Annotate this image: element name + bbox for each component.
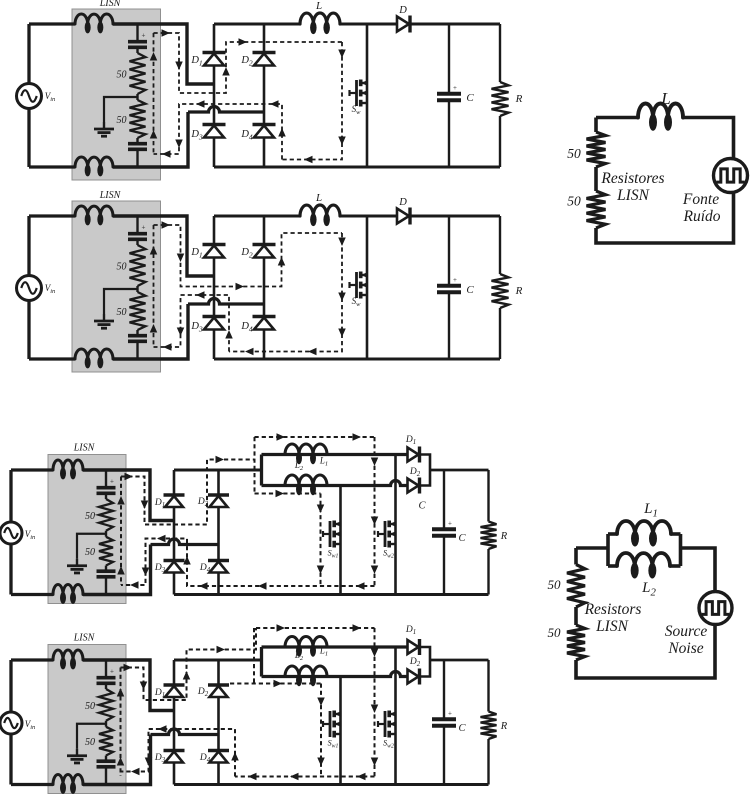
output capacitor C 4	[432, 717, 456, 721]
output diode D1 4	[408, 640, 419, 654]
dashed vertical distributor c4	[253, 628, 255, 684]
svg-text:Sw2: Sw2	[383, 549, 394, 560]
wire top rail to LISN 1	[29, 22, 75, 25]
LISN inductor top 3	[53, 460, 83, 470]
diode D4 3	[208, 559, 229, 562]
svg-text:C: C	[466, 284, 474, 296]
inductor L2 3	[285, 475, 327, 486]
svg-text:L: L	[315, 0, 322, 12]
dashed path under L2 to Sw1 c4	[230, 683, 321, 685]
wire source left vertical 3	[9, 470, 12, 595]
wire bottom rail 2	[214, 358, 500, 361]
wire LISN bottom up to mid 1	[113, 112, 188, 167]
diode D2 4	[208, 683, 229, 686]
eq1 resistor 50 bottom	[587, 191, 606, 228]
svg-text:50: 50	[548, 577, 562, 592]
LISN capacitor bottom 2	[128, 334, 147, 338]
wire output cap leg 4	[443, 660, 445, 719]
eq2 resistor 50 top	[567, 565, 585, 608]
svg-text:C: C	[418, 501, 426, 512]
wire bridge mid with hop 4	[151, 729, 219, 735]
ground 1	[103, 122, 105, 129]
svg-text:Sw1: Sw1	[328, 549, 339, 560]
AC source V4	[0, 712, 22, 734]
diode D1 4	[164, 683, 185, 686]
svg-text:D3: D3	[154, 563, 166, 574]
LISN capacitor bottom 1	[128, 142, 147, 146]
wire output top 4	[430, 659, 489, 662]
svg-text:50: 50	[567, 194, 581, 209]
eq2 inductor L1	[617, 521, 671, 534]
boost inductor L 2	[300, 205, 340, 216]
svg-text:D: D	[398, 197, 407, 208]
svg-text:50: 50	[85, 511, 95, 522]
wire D to output 1	[410, 23, 500, 26]
ground 4	[76, 749, 78, 756]
svg-text:D1: D1	[190, 55, 202, 67]
svg-text:Noise: Noise	[667, 640, 703, 657]
dashed noise return path c2	[154, 295, 230, 352]
dashed noise path to switch c1	[154, 33, 343, 93]
wire switch leg 2	[366, 216, 369, 359]
svg-text:C: C	[458, 723, 466, 734]
svg-text:Resistors: Resistors	[584, 601, 642, 618]
diode D2 3	[208, 493, 229, 496]
inductor L1 4	[285, 637, 327, 648]
LISN inductor bottom 1	[75, 157, 113, 167]
dashed path under L2 to Sw1 c3	[255, 493, 321, 495]
svg-text:L2: L2	[294, 650, 304, 662]
boost diode D 2	[397, 209, 409, 224]
dashed noise path LISN vertical c2	[153, 225, 155, 347]
LISN block 4	[48, 645, 126, 794]
wire LISN top to bridge step 1	[113, 24, 214, 84]
MOSFET Sw2 4	[384, 711, 387, 737]
svg-text:D4: D4	[240, 129, 253, 141]
svg-text:D2: D2	[409, 467, 421, 478]
svg-text:D4: D4	[199, 563, 211, 574]
eq2 wire mid left	[574, 607, 578, 625]
LISN inductor top 4	[53, 650, 83, 660]
output diode D2 4	[408, 670, 419, 684]
wire D to output 2	[410, 215, 500, 218]
wire parallel block left bar 4	[260, 647, 263, 677]
diode D3 2	[203, 315, 226, 318]
load resistor R 4	[481, 712, 497, 740]
svg-text:50: 50	[548, 625, 562, 640]
dashed noise path to switch c2	[154, 225, 343, 287]
wire source left vertical 2	[27, 216, 30, 359]
wire LISN bottom up to mid 4	[83, 735, 151, 785]
svg-text:+: +	[142, 32, 146, 40]
MOSFET Sw 2	[355, 272, 358, 298]
LISN block 3	[48, 455, 126, 604]
MOSFET Sw 1	[355, 80, 358, 106]
svg-text:L: L	[660, 89, 670, 108]
dashed Sw2 leg c3	[374, 437, 376, 586]
wire Sw2 leg 3	[394, 455, 397, 595]
LISN resistor 50 bottom 3	[99, 537, 113, 566]
wire source left vertical 4	[9, 660, 12, 785]
LISN ground wire 3	[77, 534, 106, 559]
LISN resistor 50 top 2	[130, 245, 146, 286]
svg-text:L: L	[315, 192, 322, 204]
output capacitor C 2	[437, 284, 461, 288]
wire bridge mid with hop 2	[188, 299, 264, 305]
inductor L2 4	[285, 666, 327, 677]
wire LISN top to bridge step 3	[83, 470, 174, 521]
diode D4 4	[208, 749, 229, 752]
AC source V2	[17, 276, 42, 301]
dashed Sw1 leg c3	[320, 494, 322, 587]
svg-text:LISN: LISN	[73, 443, 96, 454]
svg-text:D3: D3	[190, 129, 203, 141]
dashed vertical distributor c3	[254, 437, 256, 494]
eq2 wire top left	[576, 546, 608, 550]
svg-text:Vin: Vin	[25, 529, 36, 541]
svg-text:Resistores: Resistores	[600, 170, 664, 187]
wire bridge left vertical 2	[213, 216, 216, 359]
svg-text:L2: L2	[641, 580, 656, 598]
wire bridge right vertical 3	[217, 470, 220, 595]
LISN column wire 3	[105, 470, 107, 488]
svg-text:Vin: Vin	[25, 719, 36, 731]
wire parallel block left bar 3	[260, 455, 263, 486]
eq1 wire top right	[683, 118, 734, 159]
eq2 parallel inductor block	[606, 534, 610, 566]
wire top branch 3	[262, 453, 408, 456]
svg-text:D2: D2	[240, 55, 253, 67]
wire top rail to LISN 4	[11, 658, 53, 661]
wire Sw1 leg 3	[339, 486, 342, 595]
svg-text:D2: D2	[197, 687, 209, 698]
svg-text:LISN: LISN	[73, 633, 96, 644]
LISN capacitor top 2	[128, 232, 147, 236]
svg-text:D2: D2	[409, 657, 421, 668]
wire LISN top to bridge step 4	[83, 660, 174, 711]
svg-text:C: C	[466, 92, 474, 104]
eq2 inductor L2	[617, 553, 670, 566]
LISN column wire 4	[105, 660, 107, 678]
wire top rail to LISN 3	[11, 468, 53, 471]
diode D3 1	[203, 123, 226, 126]
wire top rail to parallel block 3	[174, 469, 262, 472]
load resistor R 1	[492, 82, 509, 116]
svg-text:LISN: LISN	[595, 618, 630, 635]
svg-text:D4: D4	[240, 321, 253, 333]
output capacitor C 3	[432, 527, 456, 531]
inductor L1 3	[285, 444, 327, 455]
diode D3 4	[164, 749, 185, 752]
LISN capacitor top 1	[128, 40, 147, 44]
wire top rail 2	[214, 215, 300, 218]
LISN resistor 50 top 1	[130, 53, 146, 94]
LISN ground wire 1	[104, 97, 138, 122]
svg-text:50: 50	[117, 115, 127, 126]
eq1 wire top left vertical	[594, 118, 598, 133]
wire top branch 4	[262, 645, 408, 648]
dashed bottom return c4	[235, 776, 375, 778]
svg-text:50: 50	[85, 547, 95, 558]
svg-text:D1: D1	[190, 247, 202, 259]
dashed noise path bridge c4	[121, 628, 257, 700]
load resistor R 3	[481, 522, 497, 550]
diode D1 1	[203, 51, 226, 54]
wire load leg 3	[487, 470, 489, 522]
eq1 noise source (Fonte Ruido)	[714, 159, 748, 193]
LISN resistor 50 bottom 2	[130, 292, 146, 330]
wire bottom branch with hop 3	[262, 481, 408, 486]
LISN block 1	[72, 9, 161, 180]
wire Sw1 leg 4	[339, 677, 342, 785]
load resistor R 2	[492, 274, 509, 308]
dashed top path to Sw2 c4	[256, 627, 375, 629]
LISN capacitor bottom 4	[97, 759, 116, 763]
wire output top 3	[430, 469, 489, 472]
wire bottom rail to LISN 3	[11, 593, 53, 596]
svg-text:50: 50	[85, 737, 95, 748]
LISN resistor 50 bottom 4	[99, 727, 113, 756]
svg-text:R: R	[500, 721, 508, 732]
svg-text:D: D	[398, 5, 407, 16]
eq2 wire bottom	[576, 625, 715, 679]
boost inductor L 1	[300, 13, 340, 24]
svg-text:+: +	[453, 276, 457, 284]
LISN resistor 50 bottom 1	[130, 100, 146, 138]
output diode D2 3	[408, 479, 419, 493]
dashed Sw2 leg c4	[374, 628, 376, 777]
wire bottom rail 3	[174, 593, 489, 596]
diode D2 2	[253, 243, 276, 246]
AC source V1	[17, 84, 42, 109]
svg-text:D1: D1	[405, 435, 416, 446]
LISN column wire 1	[136, 24, 138, 42]
wire bottom rail to LISN 4	[11, 783, 53, 786]
svg-text:Source: Source	[665, 623, 708, 640]
dashed noise path bridge c3	[121, 460, 255, 525]
wire bottom rail 1	[214, 166, 500, 169]
LISN capacitor top 3	[97, 486, 116, 490]
dashed return path c3	[121, 539, 375, 587]
wire top rail to parallel block 4	[174, 659, 262, 662]
svg-text:50: 50	[117, 262, 127, 273]
ground 3	[76, 559, 78, 566]
wire bottom rail 4	[174, 783, 489, 786]
LISN inductor bottom 4	[53, 775, 83, 785]
output diode D1 3	[408, 448, 419, 462]
wire source left vertical 1	[27, 24, 30, 167]
dashed noise path LISN vertical c3	[120, 477, 122, 586]
dashed noise path LISN vertical c4	[120, 668, 122, 777]
wire top rail 1	[214, 23, 300, 26]
wire bridge mid with hop 1	[188, 107, 264, 113]
dashed noise path switch leg c2	[229, 233, 342, 352]
LISN inductor top 2	[75, 206, 113, 216]
svg-text:R: R	[515, 285, 523, 297]
eq1 inductor L	[638, 104, 683, 118]
svg-text:R: R	[500, 531, 508, 542]
wire bridge right vertical 1	[263, 24, 266, 167]
wire diode join bar 3	[420, 455, 431, 486]
eq2 wire top left vertical	[574, 548, 578, 565]
svg-text:L1: L1	[643, 501, 658, 519]
dashed return path c4	[121, 729, 236, 777]
svg-text:Fonte: Fonte	[682, 191, 719, 208]
svg-text:+: +	[448, 709, 452, 717]
AC source V3	[0, 522, 22, 544]
svg-text:D2: D2	[240, 247, 253, 259]
wire load leg 2	[499, 216, 501, 274]
LISN resistor 50 top 4	[99, 689, 113, 721]
wire load leg 4	[487, 660, 489, 712]
wire bridge mid with hop 3	[151, 539, 219, 545]
boost diode D 1	[397, 17, 409, 32]
svg-text:+: +	[453, 84, 457, 92]
svg-text:+: +	[448, 519, 452, 527]
LISN capacitor bottom 3	[97, 569, 116, 573]
wire output cap leg 2	[448, 216, 450, 286]
eq1 wire mid left	[594, 167, 598, 191]
wire output cap leg 3	[443, 470, 445, 529]
svg-text:D3: D3	[154, 753, 166, 764]
LISN column wire 2	[136, 216, 138, 234]
wire LISN bottom up to mid 2	[113, 304, 188, 359]
diode D1 2	[203, 243, 226, 246]
svg-text:D1: D1	[154, 688, 165, 699]
diode D4 2	[253, 315, 276, 318]
svg-text:Sw1: Sw1	[328, 739, 339, 750]
wire bridge left vertical 1	[213, 24, 216, 167]
wire LISN bottom up to mid 3	[83, 545, 151, 595]
LISN inductor bottom 3	[53, 585, 83, 595]
LISN ground wire 4	[77, 724, 106, 749]
svg-text:R: R	[515, 93, 523, 105]
wire bridge right vertical 2	[263, 216, 266, 359]
diode D2 1	[253, 51, 276, 54]
LISN capacitor top 4	[97, 676, 116, 680]
eq1 wire top left	[596, 116, 638, 120]
LISN resistor 50 top 3	[99, 499, 113, 531]
wire L to D 2	[340, 215, 397, 218]
dashed noise path LISN vertical c1	[153, 33, 155, 155]
eq2 noise source (Source Noise)	[699, 592, 732, 625]
LISN ground wire 2	[104, 289, 138, 314]
svg-text:+: +	[110, 668, 114, 676]
eq1 wire bottom	[596, 193, 734, 244]
eq2 resistor 50 bottom	[567, 625, 585, 660]
ground 2	[103, 314, 105, 321]
svg-text:LISN: LISN	[99, 190, 122, 201]
svg-text:D3: D3	[190, 321, 203, 333]
svg-text:L1: L1	[319, 456, 328, 468]
MOSFET Sw2 3	[384, 521, 387, 547]
svg-text:LISN: LISN	[99, 0, 122, 9]
wire diode join bar 4	[420, 647, 431, 677]
dashed Sw1 leg c4	[320, 684, 322, 777]
diode D3 3	[164, 559, 185, 562]
wire bottom rail to LISN 1	[29, 165, 75, 168]
MOSFET Sw1 3	[329, 521, 332, 547]
svg-text:50: 50	[117, 307, 127, 318]
wire bottom branch with hop 4	[262, 672, 408, 677]
LISN block 2	[72, 201, 161, 372]
svg-text:L2: L2	[294, 460, 304, 472]
wire bottom rail to LISN 2	[29, 357, 75, 360]
wire bridge right vertical 4	[217, 660, 220, 785]
svg-text:+: +	[110, 478, 114, 486]
svg-text:Ruído: Ruído	[682, 208, 720, 225]
svg-text:+: +	[142, 224, 146, 232]
svg-text:Sw2: Sw2	[383, 739, 394, 750]
dashed top path to Sw2 c3	[255, 436, 375, 438]
diode D4 1	[253, 123, 276, 126]
wire L to D 1	[340, 23, 397, 26]
LISN inductor bottom 2	[75, 349, 113, 359]
svg-text:C: C	[458, 533, 466, 544]
svg-text:50: 50	[85, 701, 95, 712]
wire bridge left vertical 3	[173, 470, 176, 595]
svg-text:Vin: Vin	[45, 91, 56, 103]
svg-text:D1: D1	[154, 498, 165, 509]
svg-text:D1: D1	[405, 625, 416, 636]
LISN inductor top 1	[75, 14, 113, 24]
wire switch leg 1	[366, 24, 369, 167]
wire LISN top to bridge step 2	[113, 216, 214, 276]
wire load leg 1	[499, 24, 501, 82]
wire top rail to LISN 2	[29, 214, 75, 217]
svg-text:Vin: Vin	[45, 283, 56, 295]
diode D1 3	[164, 493, 185, 496]
wire Sw2 leg 4	[394, 647, 397, 785]
svg-text:50: 50	[117, 70, 127, 81]
MOSFET Sw1 4	[329, 711, 332, 737]
eq2 wire top right	[681, 548, 716, 592]
svg-text:D4: D4	[199, 753, 211, 764]
wire output cap leg 1	[448, 24, 450, 94]
eq1 resistor 50 top	[587, 132, 606, 167]
output capacitor C 1	[437, 92, 461, 96]
dashed noise return path c1	[154, 104, 283, 160]
svg-text:LISN: LISN	[616, 187, 651, 204]
dashed noise path switch leg c1	[282, 42, 342, 160]
wire bridge left vertical 4	[173, 660, 176, 785]
svg-text:50: 50	[567, 146, 581, 161]
